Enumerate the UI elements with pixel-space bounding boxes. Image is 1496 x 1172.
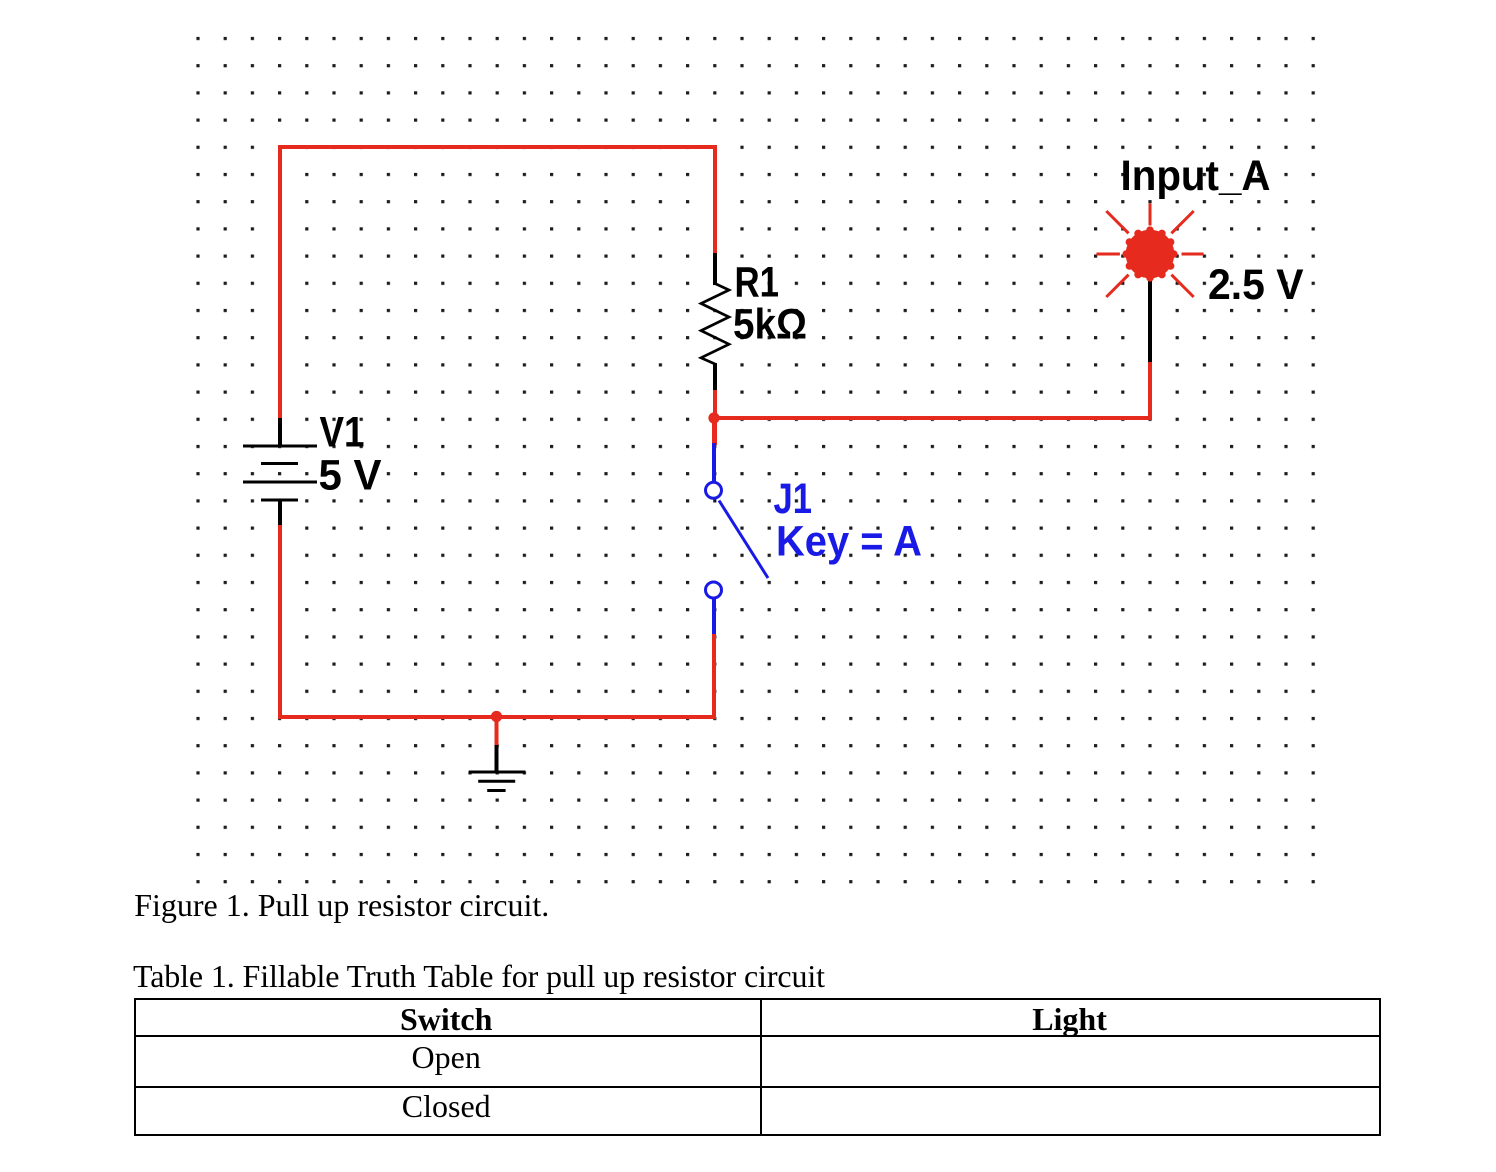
wire blue switch bottom [712,599,716,636]
table bottom border [134,1134,1381,1136]
svg-text:2.5 V: 2.5 V [1208,261,1304,309]
cell Switch [135,1001,758,1037]
battery V1 plates [243,446,317,500]
caption Figure 1 [134,887,549,923]
table right border [1379,998,1381,1136]
wire LED vertical red [1148,360,1152,420]
svg-text:R1: R1 [735,258,780,306]
resistor R1 zigzag [701,284,729,365]
LED lead black [1148,277,1152,362]
table top border [134,998,1381,1000]
schematic canvas [0,0,1496,890]
battery V1 top lead [278,418,282,446]
cell Light [761,1001,1379,1037]
svg-text:V1: V1 [320,409,365,457]
junction node A [708,412,719,423]
svg-text:5kΩ: 5kΩ [733,301,807,349]
svg-text:5 V: 5 V [319,452,382,500]
svg-text:Input_A: Input_A [1121,152,1271,200]
switch J1 top terminal [706,482,722,498]
wire resistor top red [713,145,717,254]
resistor R1 top lead [713,253,717,285]
caption Table 1 [133,958,825,994]
switch J1 blade [719,501,768,579]
wire below resistor red [713,390,717,445]
svg-text:J1: J1 [774,475,813,523]
wire junction to LED [712,416,1152,420]
wire blue switch top [712,443,716,481]
table left border [134,998,136,1136]
table row divider 2 [134,1086,1381,1088]
grid dots [195,35,1317,885]
ground lead black [495,745,499,771]
ground stub red [495,717,499,746]
battery V1 bottom lead [278,500,282,527]
table column divider [760,998,762,1136]
LED rays [1096,204,1203,298]
resistor R1 bottom lead [713,363,717,392]
junction ground node [491,711,502,722]
wire red above switch [712,415,716,445]
wire left vertical lower [278,525,282,719]
wire left vertical upper [278,145,282,420]
switch J1 bottom terminal [706,582,722,598]
table row divider 1 [134,1035,1381,1037]
wire red below switch [712,634,716,719]
wire top horizontal [278,145,717,149]
wire bottom horizontal [278,715,716,719]
ground bars [469,772,526,791]
probe LED Input_A body [1122,226,1177,281]
svg-text:Key = A: Key = A [776,518,922,566]
cell Closed [135,1088,758,1124]
cell Open [135,1039,758,1075]
